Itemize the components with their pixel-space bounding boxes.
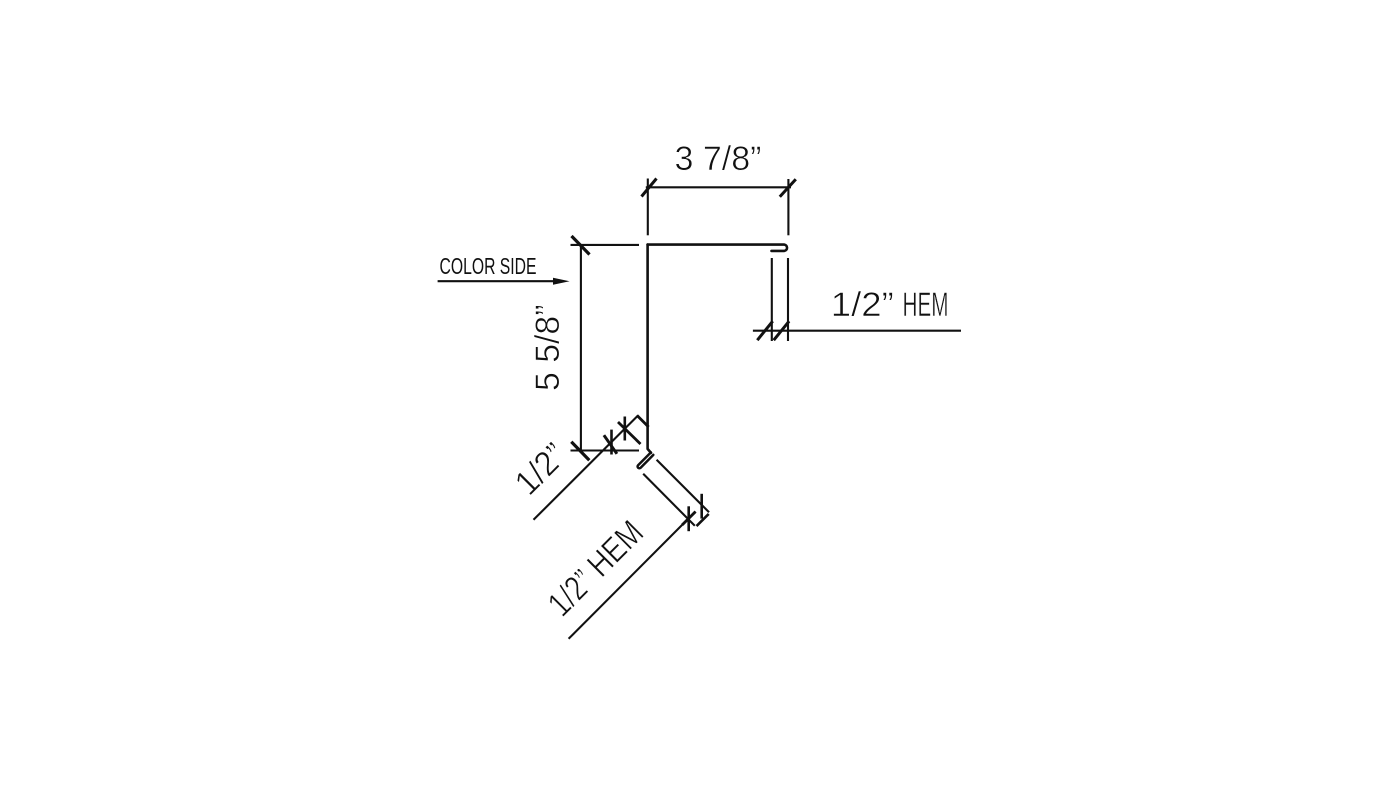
dim 3 7/8: left extension line (647, 179, 649, 236)
svg-text:1/2”: 1/2” (508, 436, 574, 502)
profile top flange with 1/2 inch hem fold (648, 245, 787, 251)
bottom hem dim: tick bar 1 (687, 506, 690, 531)
dim 3 7/8: left tick (642, 179, 657, 197)
top hem dim: dimension line (753, 330, 961, 332)
top hem dim: right tick (774, 321, 789, 340)
dim 5 5/8: dimension line (580, 245, 582, 451)
kick 1/2 dim: tick slash 2 (618, 422, 641, 444)
dim 5 5/8: bottom extension line (571, 449, 640, 451)
svg-text:1/2” HEM: 1/2” HEM (541, 514, 651, 624)
kick 1/2 dim: diagonal stub (637, 415, 649, 427)
dim 3 7/8: right tick (780, 179, 796, 197)
bottom hem dim: tick bar 2 (700, 494, 703, 519)
dim 5 5/8: top extension line (571, 244, 640, 246)
kick 1/2 dim: tick slash 1 (604, 435, 617, 454)
profile bottom kick with folded hem (U hook) (638, 452, 654, 468)
bottom hem dim: tick slash 2 (697, 514, 709, 526)
bottom hem dim: extension line A (657, 460, 709, 512)
bottom hem dim: extension line B (643, 474, 695, 526)
dim 3 7/8: dimension line (646, 186, 791, 188)
top hem dim: left extension line (771, 258, 773, 341)
svg-text:3 7/8”: 3 7/8” (675, 140, 762, 178)
bottom hem dim: dimension line 45deg (569, 512, 696, 639)
svg-text:COLOR SIDE: COLOR SIDE (440, 253, 537, 279)
svg-text:5 5/8”: 5 5/8” (529, 305, 567, 392)
profile vertical leg with 45 deg bend stub (648, 245, 651, 453)
color side leader line (438, 280, 555, 282)
top hem dim: left tick (757, 321, 772, 340)
kick 1/2 dim: tick bar 1 (610, 430, 613, 455)
bottom hem dim: tick slash 1 (682, 512, 695, 525)
svg-text:HEM: HEM (903, 286, 949, 324)
dim 3 7/8: right extension line (787, 179, 789, 235)
dim 5 5/8: top tick (572, 236, 590, 255)
dim 5 5/8: bottom tick (571, 442, 589, 460)
svg-text:1/2”: 1/2” (831, 286, 894, 324)
color side arrowhead (553, 278, 570, 285)
kick 1/2 dim: tick bar 2 (623, 417, 626, 441)
top hem dim: right extension line (787, 258, 789, 341)
kick 1/2 dim: dimension line 45deg (534, 416, 639, 520)
